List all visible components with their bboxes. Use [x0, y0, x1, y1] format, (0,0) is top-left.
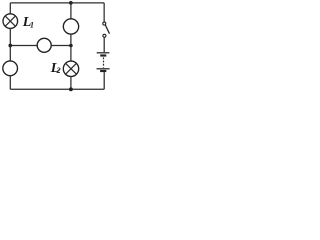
lamp L1 — [3, 14, 18, 29]
battery cell 1 positive plate — [97, 52, 110, 54]
meter circle left (unlabeled) — [3, 61, 18, 76]
switch lower terminal — [103, 34, 106, 37]
wire left branch: lamp L1 down to meter circle — [9, 28, 11, 61]
switch upper terminal — [103, 22, 106, 25]
wire middle rail left segment — [10, 45, 37, 47]
wire top rail down to meter circle top-middle — [70, 3, 72, 19]
svg-text:1: 1 — [30, 21, 34, 30]
wire lamp L2 down to bottom rail — [70, 77, 72, 90]
wire left branch: top corner down to lamp L1 — [9, 3, 11, 14]
wire switch down to battery — [103, 37, 105, 52]
switch blade (open) — [105, 25, 109, 34]
node junction top rail — [69, 1, 73, 5]
wire bottom rail — [10, 88, 104, 90]
wire dashed between cells — [103, 57, 105, 67]
battery cell 1 negative plate — [100, 54, 106, 56]
battery cell 2 negative plate — [100, 70, 106, 72]
wire battery down to bottom rail — [103, 72, 105, 89]
node junction bottom rail — [69, 87, 73, 91]
meter circle middle (unlabeled) — [37, 38, 51, 52]
wire middle rail right segment — [51, 45, 71, 47]
wire right branch: top corner down to switch — [103, 3, 105, 22]
svg-text:2: 2 — [56, 66, 61, 75]
wire top rail — [10, 2, 104, 4]
battery cell 2 positive plate — [97, 68, 110, 70]
wire meter down through middle junction to lamp L2 — [70, 34, 72, 61]
node junction left middle — [8, 44, 12, 48]
node junction middle rail right — [69, 44, 73, 48]
wire left branch: meter down to bottom rail — [9, 76, 11, 90]
lamp L2 — [63, 61, 78, 76]
meter circle top-middle (unlabeled) — [63, 19, 78, 34]
